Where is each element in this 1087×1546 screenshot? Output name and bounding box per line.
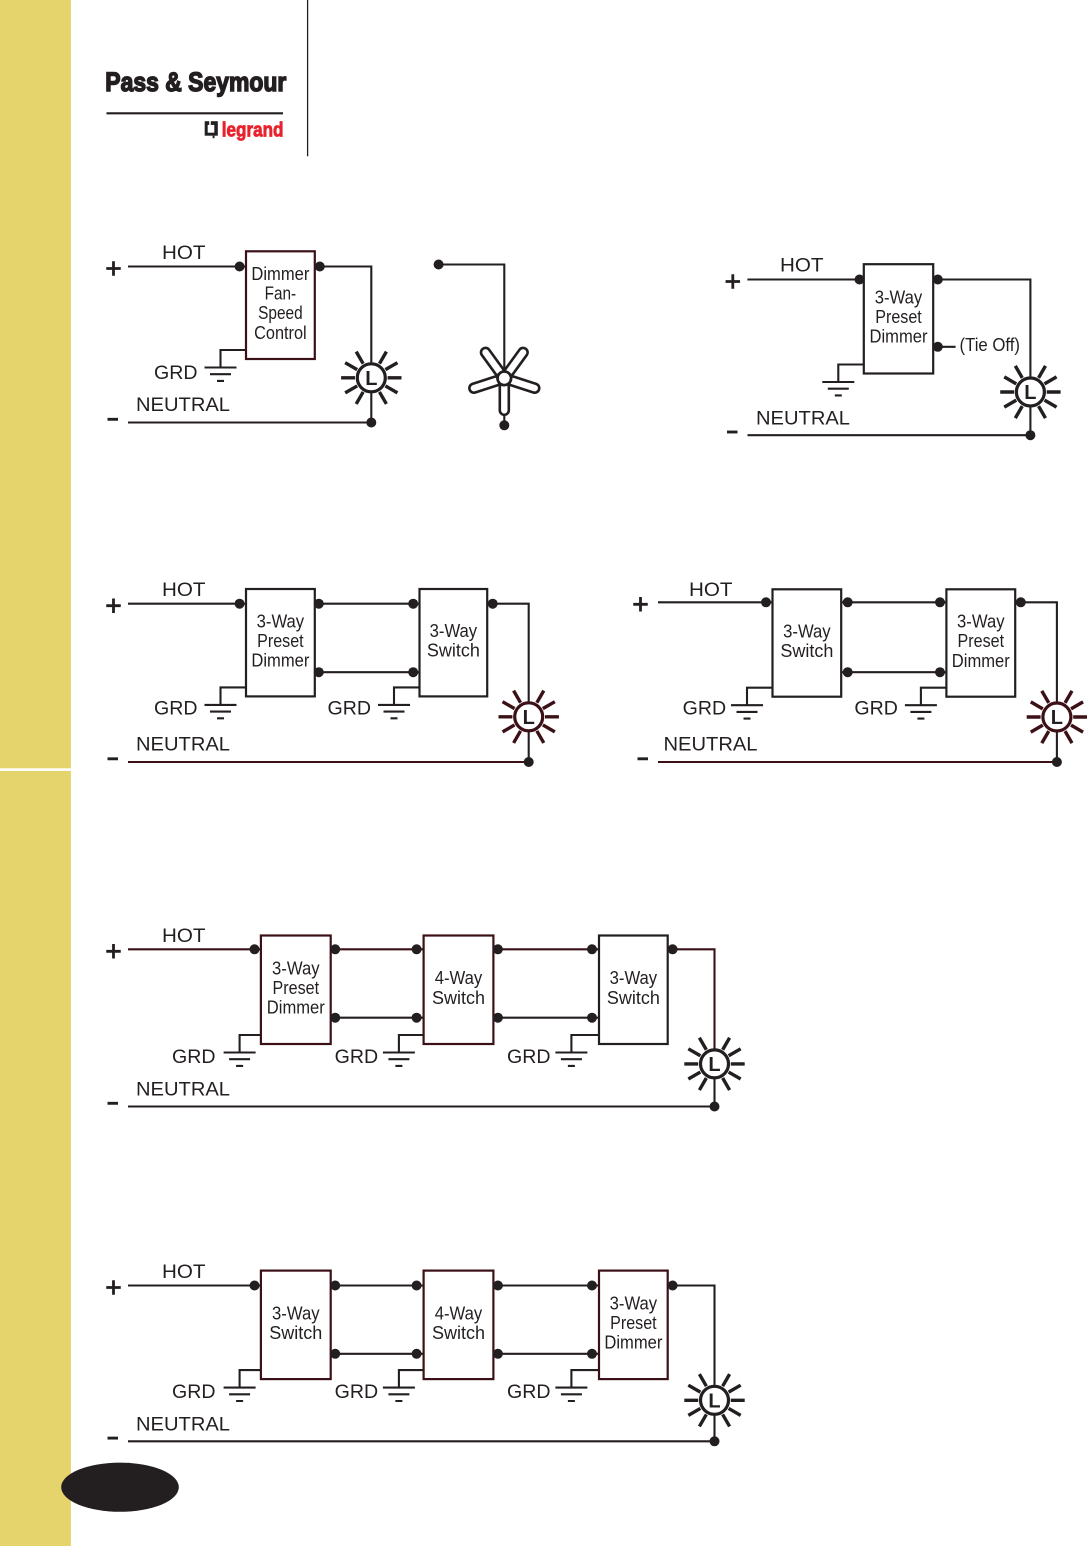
svg-text:NEUTRAL: NEUTRAL xyxy=(136,1080,230,1101)
svg-text:3-Way: 3-Way xyxy=(610,1293,658,1313)
circuit 2 (3-way preset dimmer, tie off): output node xyxy=(933,275,943,285)
circuit 5 (dimmer, 4-way, 3-way): neutral node xyxy=(710,1102,720,1112)
svg-text:HOT: HOT xyxy=(162,243,206,264)
circuit 2 (3-way preset dimmer, tie off): tie-off node xyxy=(933,342,943,352)
circuit 4 (3-way switch then dimmer): traveler wire bottom xyxy=(841,671,946,673)
circuit 4 (3-way switch then dimmer): HOT wire xyxy=(658,601,773,603)
circuit 1 (dimmer fan-speed control): NEUTRAL wire xyxy=(128,421,372,423)
circuit 5 (dimmer, 4-way, 3-way): node b1 out top xyxy=(330,944,340,954)
circuit 5 (dimmer, 4-way, 3-way): box2 '4-Way Switch' xyxy=(424,936,494,1045)
svg-text:Dimmer: Dimmer xyxy=(251,651,309,671)
circuit 6 (3-way, 4-way, dimmer): − terminal xyxy=(108,1437,119,1440)
circuit 1 (dimmer fan-speed control): HOT wire xyxy=(128,265,246,267)
circuit 4 (3-way switch then dimmer): wire lamp to neutral xyxy=(1056,717,1058,762)
circuit 5 (dimmer, 4-way, 3-way): wire lamp to neutral xyxy=(713,1064,715,1107)
svg-text:Preset: Preset xyxy=(257,631,304,651)
svg-text:Dimmer: Dimmer xyxy=(952,651,1010,671)
svg-text:L: L xyxy=(708,1391,720,1413)
svg-text:Dimmer: Dimmer xyxy=(251,264,309,284)
circuit 6 (3-way, 4-way, dimmer): traveler wire bottom 2 xyxy=(493,1353,599,1355)
svg-text:legrand: legrand xyxy=(222,120,284,142)
svg-text:GRD: GRD xyxy=(335,1382,379,1403)
circuit 5 (dimmer, 4-way, 3-way): node b2 out bottom xyxy=(493,1013,503,1023)
circuit 2 (3-way preset dimmer, tie off): lamp L xyxy=(1000,366,1060,418)
circuit 5 (dimmer, 4-way, 3-way): box3 '3-Way Switch' xyxy=(599,936,668,1045)
circuit 6 (3-way, 4-way, dimmer): box1 ground symbol xyxy=(224,1388,256,1401)
svg-text:Switch: Switch xyxy=(269,1323,322,1343)
svg-text:Preset: Preset xyxy=(958,631,1005,651)
circuit 3 (dimmer then 3-way switch): traveler wire top xyxy=(315,603,420,605)
circuit 3 (dimmer then 3-way switch): − terminal xyxy=(108,757,119,760)
svg-text:HOT: HOT xyxy=(689,580,733,601)
circuit 1 (dimmer fan-speed control): wire lamp to neutral xyxy=(370,378,372,423)
svg-text:Switch: Switch xyxy=(432,988,485,1008)
circuit 6 (3-way, 4-way, dimmer): traveler wire top 1 xyxy=(331,1284,424,1286)
circuit 4 (3-way switch then dimmer): box '3-Way Preset Dimmer' xyxy=(946,589,1015,696)
circuit 6 (3-way, 4-way, dimmer): HOT wire xyxy=(128,1284,261,1286)
circuit 5 (dimmer, 4-way, 3-way): traveler wire bottom 1 xyxy=(331,1017,424,1019)
svg-text:GRD: GRD xyxy=(172,1047,216,1068)
circuit 5 (dimmer, 4-way, 3-way): lamp L xyxy=(684,1038,744,1090)
circuit 3 (dimmer then 3-way switch): wire lamp to neutral xyxy=(528,717,530,762)
circuit 3 (dimmer then 3-way switch): + terminal xyxy=(106,598,121,613)
svg-text:4-Way: 4-Way xyxy=(435,1303,483,1323)
circuit 6 (3-way, 4-way, dimmer): output node xyxy=(668,1281,678,1291)
svg-text:NEUTRAL: NEUTRAL xyxy=(136,735,230,756)
circuit 6 (3-way, 4-way, dimmer): traveler wire bottom 1 xyxy=(331,1353,424,1355)
fan circuit: bottom node xyxy=(499,420,509,430)
circuit 6 (3-way, 4-way, dimmer): box1 ground wire xyxy=(240,1370,261,1388)
circuit 2 (3-way preset dimmer, tie off): − terminal xyxy=(727,431,738,434)
fan circuit: wire fan to bottom node xyxy=(503,410,505,425)
circuit 2 (3-way preset dimmer, tie off): neutral node xyxy=(1025,430,1035,440)
circuit 2 (3-way preset dimmer, tie off): wire lamp to neutral xyxy=(1029,392,1031,435)
circuit 5 (dimmer, 4-way, 3-way): output node xyxy=(668,944,678,954)
circuit 4 (3-way switch then dimmer): NEUTRAL wire xyxy=(658,761,1059,763)
circuit 4 (3-way switch then dimmer): dimmer ground symbol xyxy=(905,705,937,718)
svg-text:GRD: GRD xyxy=(154,363,198,384)
circuit 2 (3-way preset dimmer, tie off): hot input node xyxy=(855,275,865,285)
circuit 6 (3-way, 4-way, dimmer): neutral node xyxy=(710,1436,720,1446)
circuit 1 (dimmer fan-speed control): ground symbol xyxy=(205,368,237,381)
circuit 1 (dimmer fan-speed control): wire control to lamp xyxy=(315,267,372,378)
svg-text:GRD: GRD xyxy=(507,1382,551,1403)
svg-text:GRD: GRD xyxy=(328,699,372,720)
svg-text:L: L xyxy=(523,707,535,729)
circuit 4 (3-way switch then dimmer): box '3-Way Switch' xyxy=(773,589,842,696)
circuit 4 (3-way switch then dimmer): switch out node top xyxy=(843,597,853,607)
svg-text:Switch: Switch xyxy=(780,641,833,661)
circuit 1 (dimmer fan-speed control): control box 'Dimmer Fan-Speed Control' xyxy=(246,251,315,359)
svg-text:(Tie Off): (Tie Off) xyxy=(960,334,1021,355)
svg-text:Preset: Preset xyxy=(875,307,922,327)
page number ellipse xyxy=(61,1463,179,1512)
circuit 6 (3-way, 4-way, dimmer): box3 ground symbol xyxy=(555,1388,587,1401)
circuit 6 (3-way, 4-way, dimmer): hot input node xyxy=(250,1281,260,1291)
circuit 5 (dimmer, 4-way, 3-way): box1 ground symbol xyxy=(224,1053,256,1066)
yellow sidebar top segment xyxy=(0,0,71,768)
circuit 3 (dimmer then 3-way switch): hot input node xyxy=(235,599,245,609)
circuit 3 (dimmer then 3-way switch): dimmer out node bottom xyxy=(314,667,324,677)
circuit 3 (dimmer then 3-way switch): switch ground wire xyxy=(394,687,420,705)
svg-text:HOT: HOT xyxy=(162,926,206,947)
circuit 3 (dimmer then 3-way switch): NEUTRAL wire xyxy=(128,761,532,763)
circuit 4 (3-way switch then dimmer): lamp L xyxy=(1027,691,1087,743)
circuit 1 (dimmer fan-speed control): lamp L xyxy=(341,352,401,404)
circuit 1 (dimmer fan-speed control): output node xyxy=(315,262,325,272)
circuit 5 (dimmer, 4-way, 3-way): node b3 in bottom xyxy=(587,1013,597,1023)
circuit 5 (dimmer, 4-way, 3-way): node b2 out top xyxy=(493,944,503,954)
circuit 2 (3-way preset dimmer, tie off): NEUTRAL wire xyxy=(748,434,1033,436)
legrand icon xyxy=(205,120,218,138)
circuit 6 (3-way, 4-way, dimmer): NEUTRAL wire xyxy=(128,1440,717,1442)
svg-text:3-Way: 3-Way xyxy=(272,1303,320,1323)
circuit 5 (dimmer, 4-way, 3-way): − terminal xyxy=(108,1102,119,1105)
circuit 6 (3-way, 4-way, dimmer): node b3 in top xyxy=(587,1281,597,1291)
circuit 5 (dimmer, 4-way, 3-way): box1 '3-Way Preset Dimmer' xyxy=(261,936,331,1045)
circuit 1 (dimmer fan-speed control): ground wire xyxy=(221,350,247,368)
circuit 4 (3-way switch then dimmer): + terminal xyxy=(633,597,648,612)
svg-text:GRD: GRD xyxy=(683,699,727,720)
circuit 4 (3-way switch then dimmer): switch out node bottom xyxy=(843,667,853,677)
circuit 2 (3-way preset dimmer, tie off): wire dimmer to lamp xyxy=(933,280,1030,393)
yellow sidebar bottom segment xyxy=(0,771,71,1546)
circuit 6 (3-way, 4-way, dimmer): node b2 out bottom xyxy=(493,1349,503,1359)
circuit 1 (dimmer fan-speed control): + terminal xyxy=(106,261,121,276)
circuit 3 (dimmer then 3-way switch): box '3-Way Preset Dimmer' xyxy=(246,589,315,696)
circuit 2 (3-way preset dimmer, tie off): + terminal xyxy=(726,274,741,289)
circuit 6 (3-way, 4-way, dimmer): node b1 out bottom xyxy=(330,1349,340,1359)
circuit 1 (dimmer fan-speed control): − terminal xyxy=(108,418,119,421)
circuit 3 (dimmer then 3-way switch): switch in node top xyxy=(408,599,418,609)
svg-text:3-Way: 3-Way xyxy=(257,611,305,631)
fan motor symbol xyxy=(468,346,540,415)
svg-text:3-Way: 3-Way xyxy=(783,621,831,641)
circuit 3 (dimmer then 3-way switch): wire switch to lamp xyxy=(487,604,529,717)
circuit 5 (dimmer, 4-way, 3-way): traveler wire top 1 xyxy=(331,948,424,950)
circuit 6 (3-way, 4-way, dimmer): node b2 in bottom xyxy=(412,1349,422,1359)
svg-text:NEUTRAL: NEUTRAL xyxy=(136,395,230,416)
circuit 6 (3-way, 4-way, dimmer): lamp L xyxy=(684,1374,744,1426)
circuit 6 (3-way, 4-way, dimmer): node b2 out top xyxy=(493,1281,503,1291)
svg-text:GRD: GRD xyxy=(335,1047,379,1068)
svg-text:L: L xyxy=(365,368,377,390)
circuit 6 (3-way, 4-way, dimmer): box3 '3-Way Preset Dimmer' xyxy=(599,1271,668,1380)
circuit 3 (dimmer then 3-way switch): neutral node xyxy=(524,757,534,767)
circuit 5 (dimmer, 4-way, 3-way): box3 ground wire xyxy=(571,1035,599,1053)
svg-text:3-Way: 3-Way xyxy=(957,612,1005,632)
svg-text:Switch: Switch xyxy=(432,1323,485,1343)
circuit 5 (dimmer, 4-way, 3-way): hot input node xyxy=(250,944,260,954)
circuit 4 (3-way switch then dimmer): neutral node xyxy=(1052,757,1062,767)
circuit 6 (3-way, 4-way, dimmer): wire lamp to neutral xyxy=(713,1400,715,1441)
svg-text:Control: Control xyxy=(254,323,307,343)
circuit 4 (3-way switch then dimmer): traveler wire top xyxy=(841,601,946,603)
svg-text:HOT: HOT xyxy=(780,255,824,276)
circuit 3 (dimmer then 3-way switch): box '3-Way Switch' xyxy=(420,589,488,696)
circuit 6 (3-way, 4-way, dimmer): + terminal xyxy=(106,1280,121,1295)
circuit 6 (3-way, 4-way, dimmer): traveler wire top 2 xyxy=(493,1284,599,1286)
svg-text:Pass & Seymour: Pass & Seymour xyxy=(105,67,286,97)
circuit 2 (3-way preset dimmer, tie off): ground wire xyxy=(838,365,864,383)
circuit 6 (3-way, 4-way, dimmer): box2 '4-Way Switch' xyxy=(424,1271,494,1380)
svg-text:L: L xyxy=(708,1054,720,1076)
svg-text:Fan-: Fan- xyxy=(265,284,297,304)
circuit 2 (3-way preset dimmer, tie off): tie-off stub wire xyxy=(933,346,955,348)
circuit 6 (3-way, 4-way, dimmer): box2 ground symbol xyxy=(383,1388,415,1401)
circuit 5 (dimmer, 4-way, 3-way): node b2 in bottom xyxy=(412,1013,422,1023)
circuit 3 (dimmer then 3-way switch): HOT wire xyxy=(128,603,246,605)
circuit 2 (3-way preset dimmer, tie off): box '3-Way Preset Dimmer' xyxy=(864,264,933,373)
circuit 2 (3-way preset dimmer, tie off): HOT wire xyxy=(747,278,863,280)
circuit 5 (dimmer, 4-way, 3-way): NEUTRAL wire xyxy=(128,1105,717,1107)
circuit 3 (dimmer then 3-way switch): dimmer ground wire xyxy=(221,687,247,705)
circuit 4 (3-way switch then dimmer): switch ground symbol xyxy=(731,705,763,718)
svg-text:NEUTRAL: NEUTRAL xyxy=(756,408,850,429)
svg-text:HOT: HOT xyxy=(162,580,206,601)
svg-text:L: L xyxy=(1024,382,1036,404)
svg-text:GRD: GRD xyxy=(507,1047,551,1068)
circuit 5 (dimmer, 4-way, 3-way): box2 ground symbol xyxy=(383,1053,415,1066)
svg-text:GRD: GRD xyxy=(172,1382,216,1403)
circuit 1 (dimmer fan-speed control): hot input node xyxy=(235,262,245,272)
circuit 3 (dimmer then 3-way switch): dimmer ground symbol xyxy=(205,705,237,718)
svg-text:3-Way: 3-Way xyxy=(430,621,478,641)
circuit 3 (dimmer then 3-way switch): switch in node bottom xyxy=(408,667,418,677)
circuit 6 (3-way, 4-way, dimmer): box2 ground wire xyxy=(399,1370,424,1388)
circuit 3 (dimmer then 3-way switch): switch ground symbol xyxy=(378,705,410,718)
circuit 4 (3-way switch then dimmer): − terminal xyxy=(638,757,649,760)
svg-text:3-Way: 3-Way xyxy=(272,958,320,978)
svg-text:L: L xyxy=(1051,707,1063,729)
circuit 5 (dimmer, 4-way, 3-way): wire to lamp xyxy=(668,949,715,1064)
circuit 6 (3-way, 4-way, dimmer): wire to lamp xyxy=(668,1286,715,1401)
fan circuit: supply node xyxy=(434,260,444,270)
circuit 3 (dimmer then 3-way switch): switch output node xyxy=(488,599,498,609)
svg-text:GRD: GRD xyxy=(854,699,898,720)
circuit 6 (3-way, 4-way, dimmer): box3 ground wire xyxy=(571,1370,599,1388)
circuit 5 (dimmer, 4-way, 3-way): traveler wire bottom 2 xyxy=(493,1017,599,1019)
logo divider rule xyxy=(107,112,284,114)
svg-text:Preset: Preset xyxy=(273,978,320,998)
circuit 4 (3-way switch then dimmer): dimmer in node top xyxy=(935,597,945,607)
circuit 1 (dimmer fan-speed control): neutral node xyxy=(366,418,376,428)
circuit 6 (3-way, 4-way, dimmer): box1 '3-Way Switch' xyxy=(261,1271,331,1380)
circuit 4 (3-way switch then dimmer): hot input node xyxy=(761,597,771,607)
svg-text:4-Way: 4-Way xyxy=(435,968,483,988)
svg-text:NEUTRAL: NEUTRAL xyxy=(136,1414,230,1435)
svg-text:Switch: Switch xyxy=(607,988,660,1008)
circuit 4 (3-way switch then dimmer): switch ground wire xyxy=(747,688,773,706)
svg-text:GRD: GRD xyxy=(154,699,198,720)
circuit 4 (3-way switch then dimmer): dimmer ground wire xyxy=(921,688,947,706)
svg-text:Preset: Preset xyxy=(610,1313,657,1333)
circuit 6 (3-way, 4-way, dimmer): node b3 in bottom xyxy=(587,1349,597,1359)
circuit 4 (3-way switch then dimmer): dimmer in node bottom xyxy=(935,667,945,677)
svg-text:Dimmer: Dimmer xyxy=(267,998,325,1018)
svg-text:3-Way: 3-Way xyxy=(610,968,658,988)
circuit 5 (dimmer, 4-way, 3-way): + terminal xyxy=(106,944,121,959)
svg-text:Switch: Switch xyxy=(427,641,480,661)
circuit 3 (dimmer then 3-way switch): dimmer out node top xyxy=(314,599,324,609)
circuit 4 (3-way switch then dimmer): wire dimmer to lamp xyxy=(1015,602,1057,717)
header vertical rule xyxy=(307,0,309,156)
svg-text:HOT: HOT xyxy=(162,1262,206,1283)
circuit 6 (3-way, 4-way, dimmer): node b1 out top xyxy=(330,1281,340,1291)
circuit 5 (dimmer, 4-way, 3-way): box2 ground wire xyxy=(399,1035,424,1053)
circuit 2 (3-way preset dimmer, tie off): ground symbol xyxy=(822,382,854,395)
circuit 5 (dimmer, 4-way, 3-way): traveler wire top 2 xyxy=(493,948,599,950)
circuit 5 (dimmer, 4-way, 3-way): HOT wire xyxy=(128,948,261,950)
circuit 3 (dimmer then 3-way switch): lamp L xyxy=(499,691,559,743)
svg-text:3-Way: 3-Way xyxy=(875,287,923,307)
circuit 5 (dimmer, 4-way, 3-way): node b3 in top xyxy=(587,944,597,954)
fan circuit: wire supply to fan xyxy=(439,265,505,373)
svg-text:NEUTRAL: NEUTRAL xyxy=(664,735,758,756)
circuit 5 (dimmer, 4-way, 3-way): box1 ground wire xyxy=(240,1035,261,1053)
circuit 3 (dimmer then 3-way switch): traveler wire bottom xyxy=(315,671,420,673)
circuit 5 (dimmer, 4-way, 3-way): box3 ground symbol xyxy=(555,1053,587,1066)
circuit 6 (3-way, 4-way, dimmer): node b2 in top xyxy=(412,1281,422,1291)
svg-text:Speed: Speed xyxy=(258,303,303,323)
circuit 5 (dimmer, 4-way, 3-way): node b2 in top xyxy=(412,944,422,954)
svg-text:Dimmer: Dimmer xyxy=(870,327,928,347)
svg-text:Dimmer: Dimmer xyxy=(604,1333,662,1353)
circuit 4 (3-way switch then dimmer): dimmer output node xyxy=(1016,597,1026,607)
circuit 5 (dimmer, 4-way, 3-way): node b1 out bottom xyxy=(330,1013,340,1023)
